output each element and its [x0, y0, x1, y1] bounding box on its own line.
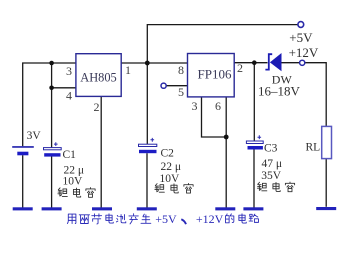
wire AH805 pin 2 to ground [100, 96, 102, 207]
svg-text:+12V: +12V [289, 45, 319, 60]
svg-text:2: 2 [237, 61, 243, 75]
svg-text:FP106: FP106 [198, 67, 232, 82]
capacitor C3 [246, 135, 263, 149]
node C junction dot [252, 60, 257, 65]
capacitor C2 labels [160, 148, 182, 185]
wire node B down to C1 [51, 63, 53, 148]
svg-text:+5V: +5V [289, 30, 313, 45]
svg-text:35V: 35V [261, 170, 282, 182]
wire battery top rail to AH805 pin 3 [23, 63, 76, 146]
svg-text:47 μ: 47 μ [262, 158, 283, 170]
svg-text:4: 4 [66, 88, 72, 102]
terminal +12V circle [300, 60, 305, 65]
svg-text:10V: 10V [63, 175, 84, 187]
wire AH805 pin 1 to FP106 pin 8 [121, 62, 188, 64]
ground AH805 pin2 [92, 207, 112, 210]
ground C1 [42, 207, 62, 210]
svg-text:AH805: AH805 [80, 70, 116, 84]
capacitor C2 [139, 138, 157, 153]
capacitor C1 label tantalum [58, 188, 95, 198]
terminal pin5 circle [161, 83, 166, 88]
svg-text:22 μ: 22 μ [161, 161, 182, 173]
caption chinese: use two battery cells to produce +5V +12V circuit [67, 214, 150, 224]
capacitor C3 labels [261, 143, 282, 182]
wire FP106 pin 3 jog [202, 97, 227, 137]
resistor RL [322, 126, 332, 158]
wire battery bottom to ground [22, 155, 24, 207]
node pin4 junction dot [49, 86, 54, 91]
op-amp U2 FP106 box [188, 54, 235, 97]
svg-text:1: 1 [125, 63, 131, 77]
ground RL [316, 207, 336, 210]
svg-text:C1: C1 [63, 149, 77, 161]
capacitor C2 label tantalum [155, 183, 193, 193]
ground C2 [137, 207, 157, 210]
node B junction dot [49, 61, 54, 66]
wire zener to +12V terminal and down to RL [281, 63, 326, 127]
capacitor C1 labels [63, 149, 85, 187]
svg-text:RL: RL [306, 141, 321, 153]
svg-text:C3: C3 [264, 143, 278, 155]
svg-text:+5V: +5V [155, 212, 177, 226]
svg-text:10V: 10V [160, 173, 181, 185]
svg-text:5: 5 [178, 85, 184, 99]
svg-text:3: 3 [66, 64, 72, 78]
capacitor C1 [44, 142, 62, 156]
capacitor C3 label tantalum [257, 182, 294, 192]
wire top +5V rail from node A down to C2 [147, 25, 297, 145]
node pin3/pin6 junction dot [224, 135, 229, 140]
ground FP106 pin6 [215, 207, 235, 210]
ground battery [13, 207, 33, 210]
wire FP106 pin 2 to zener [234, 62, 267, 64]
svg-text:C2: C2 [161, 148, 175, 160]
wire C1 bottom to ground [51, 157, 53, 208]
svg-text:2: 2 [94, 100, 100, 114]
caption trailing chinese: de dian lu [226, 214, 259, 223]
wire RL bottom to ground [325, 159, 327, 207]
node A junction dot [145, 61, 150, 66]
svg-text:3: 3 [192, 99, 198, 113]
op-amp U1 AH805 box [76, 54, 121, 97]
wire FP106 pin 6 to ground [225, 97, 227, 208]
wire C3 bottom to ground [253, 150, 255, 208]
terminal +5V circle [298, 22, 304, 28]
wire AH805 pin 4 [52, 87, 76, 89]
wire C2 bottom to ground [146, 153, 148, 207]
battery B1 3V [12, 146, 34, 155]
ground C3 [243, 207, 263, 210]
caption ideographic comma [181, 219, 186, 224]
svg-text:3V: 3V [27, 130, 42, 142]
svg-text:+12V: +12V [196, 212, 224, 226]
svg-text:16–18V: 16–18V [258, 84, 301, 99]
zener diode DW [265, 54, 281, 71]
svg-text:8: 8 [178, 63, 184, 77]
wire node C down to C3 [253, 63, 255, 141]
svg-text:6: 6 [215, 99, 221, 113]
wire FP106 pin 5 stub [166, 85, 187, 87]
